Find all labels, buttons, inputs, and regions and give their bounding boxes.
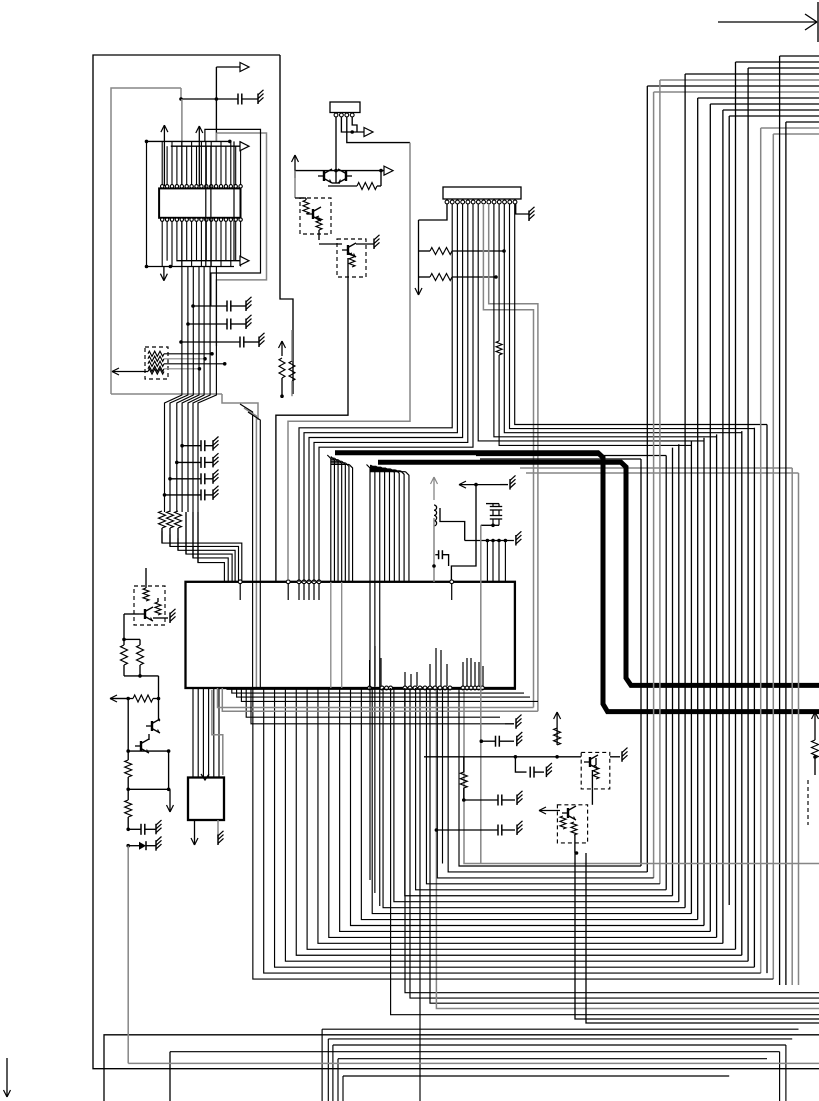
capacitor C12 row <box>480 732 523 747</box>
wire bus to regulator <box>193 688 219 777</box>
capacitor C7 row <box>168 470 218 485</box>
transistor Q9 dashed <box>539 805 588 855</box>
wire bus staircase <box>253 688 773 979</box>
wire v442 <box>442 688 444 864</box>
capacitor C6 row <box>175 453 219 468</box>
wires around CN3 <box>415 204 535 295</box>
dashed fragment <box>807 780 809 825</box>
wire gray left drop <box>127 846 129 1064</box>
capacitor C4 row <box>179 333 264 348</box>
wire bus mid rows <box>299 204 767 582</box>
wire staircase into IC2 <box>162 404 260 688</box>
wire bus B <box>367 465 409 907</box>
capacitor C8 row <box>163 486 219 501</box>
wire bus bottom chains <box>170 1029 799 1101</box>
connector CN1 <box>159 188 240 217</box>
capacitor C3 row <box>186 315 251 330</box>
transistor Q3 dashed <box>295 198 331 240</box>
coil T1 circuit <box>431 477 465 582</box>
connector CN2 <box>330 102 360 117</box>
transistor Q4 dashed <box>319 235 380 277</box>
wire bus below CN1 <box>182 267 217 347</box>
wire loop CN1 <box>205 129 261 306</box>
wire net CN2 to U1 gray <box>288 143 410 579</box>
wire pair transistor drop <box>575 853 819 1023</box>
wire gray row 863 <box>464 690 819 864</box>
capacitor C5 row <box>180 437 218 452</box>
wire gray pair long <box>483 204 538 711</box>
thick bus line 1 <box>335 453 819 712</box>
resistor R16 <box>812 712 819 775</box>
wire bus mid-left <box>165 346 217 512</box>
transistor Q6 Q7 <box>126 719 170 789</box>
resistor network RN1 <box>112 347 227 379</box>
resistor R13 <box>125 789 132 829</box>
transistor Q1 Q2 pair <box>292 155 394 198</box>
wire bus A <box>327 455 352 688</box>
resistor R11 row <box>110 695 160 751</box>
connector CN3 <box>443 187 521 204</box>
capacitor C11 sub <box>515 757 552 778</box>
transistor Q8 dashed <box>581 752 610 804</box>
wire bus reroute <box>218 688 539 724</box>
capacitor C2 row <box>191 297 251 312</box>
resistor R15 <box>460 757 467 800</box>
resistor R12 <box>125 751 132 789</box>
wire bus below CN3 <box>496 341 502 355</box>
transistor Q5 dashed <box>124 568 176 639</box>
connector CN1 pins <box>161 185 243 222</box>
regulator box <box>188 690 224 845</box>
wire row 789 <box>126 788 173 813</box>
wire crossers CN1 <box>206 141 211 266</box>
diode D1 row <box>126 837 161 851</box>
wires upper <box>424 712 628 762</box>
resistor R5 pair <box>279 330 296 398</box>
wire net Q4 to U1 <box>276 277 348 582</box>
capacitor C14 row <box>435 821 523 836</box>
wires coil area <box>435 475 521 582</box>
border arrow bottom-left <box>4 1058 11 1097</box>
capacitor C10 pair <box>481 504 502 864</box>
resistor R6 triple <box>159 511 199 563</box>
wire row 1035 <box>104 1035 819 1101</box>
wire row 1063 gray <box>128 1062 819 1064</box>
wire bus below U1 long <box>391 688 819 1101</box>
IC U1 <box>186 580 515 690</box>
wire fan below CN1 <box>145 221 249 280</box>
signal arrow A <box>215 63 249 142</box>
wire bus right vertical <box>641 56 819 985</box>
wire fan above CN1 <box>145 125 249 266</box>
capacitor C1 row <box>179 90 263 105</box>
wires below CN2 <box>336 117 410 170</box>
frame inner gray box <box>111 88 258 420</box>
capacitor C13 row <box>462 791 523 806</box>
capacitor C9 row <box>126 820 161 835</box>
ground stub 724 <box>505 715 522 729</box>
resistor R10 pair <box>121 638 159 699</box>
wire bus gray rows <box>520 468 799 473</box>
thick bus line 2 <box>378 462 819 685</box>
border arrow top-right <box>718 2 818 42</box>
wire gray crossers CN1 <box>182 99 267 346</box>
